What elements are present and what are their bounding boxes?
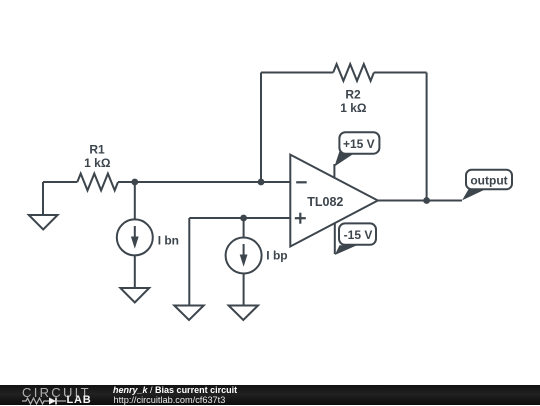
svg-text:+15 V: +15 V (343, 137, 375, 151)
svg-text:TL082: TL082 (307, 195, 343, 209)
svg-text:-15 V: -15 V (344, 228, 373, 242)
svg-text:R1: R1 (89, 142, 105, 156)
svg-text:I bp: I bp (266, 249, 287, 263)
svg-text:output: output (470, 173, 507, 187)
svg-text:1 kΩ: 1 kΩ (340, 101, 367, 115)
svg-text:I bn: I bn (158, 233, 179, 247)
svg-text:1 kΩ: 1 kΩ (84, 156, 111, 170)
svg-text:R2: R2 (345, 87, 361, 101)
